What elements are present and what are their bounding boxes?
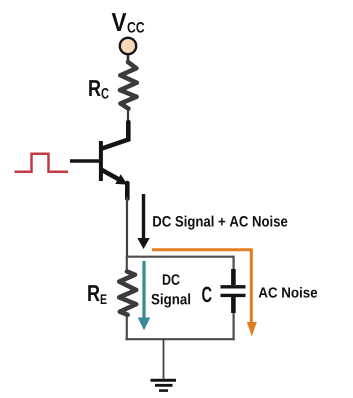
ground — [151, 379, 177, 382]
label RE R — [88, 285, 99, 301]
box right edge segments — [233, 256, 235, 272]
box bottom edge — [125, 338, 234, 340]
label RE subscript E — [101, 294, 107, 304]
transistor Q1 collector lead — [102, 122, 128, 149]
label AC Noise — [259, 287, 318, 298]
transistor Q1 emitter lead with arrow — [102, 170, 119, 180]
transistor Q1 base lead wire — [70, 159, 100, 163]
label Rc R — [89, 80, 100, 96]
label C (capacitor) — [202, 287, 212, 303]
resistor Rc — [120, 62, 137, 109]
wire box to ground — [163, 339, 165, 379]
wire Vcc to Rc — [127, 55, 130, 63]
wire emitter to box — [126, 197, 128, 257]
input pulse waveform — [15, 154, 69, 172]
label Vcc V — [112, 13, 127, 31]
orange AC noise current path — [152, 250, 251, 323]
arrow DC Signal (teal) — [142, 261, 145, 319]
label Signal — [151, 293, 190, 307]
arrow DC Signal + AC Noise — [142, 194, 145, 239]
box top edge — [127, 256, 234, 258]
box left edge segments — [126, 256, 128, 273]
label DC Signal + AC Noise — [153, 216, 287, 230]
wire Rc to collector — [127, 108, 129, 124]
resistor RE — [119, 272, 136, 315]
label Rc subscript C — [101, 88, 108, 99]
label DC — [163, 274, 180, 285]
label Vcc subscript CC — [128, 22, 145, 33]
transistor Q1 base bar — [99, 141, 103, 181]
capacitor C — [231, 269, 236, 285]
Vcc supply terminal — [120, 38, 136, 54]
